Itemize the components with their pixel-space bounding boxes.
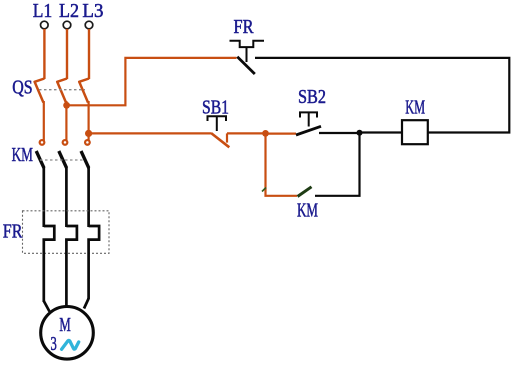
pushbutton SB2 (NO, start) blade: [296, 126, 321, 135]
svg-text:L3: L3: [82, 0, 103, 22]
wire pole3 to SB1: [89, 132, 211, 134]
wire control feed: pole2 to FR contact: [67, 58, 237, 105]
wire into motor right: [84, 299, 89, 309]
switch QS pole 3: [79, 79, 89, 103]
svg-text:KM: KM: [297, 200, 318, 222]
KM main contact blade pole 1: [36, 151, 44, 168]
wire node A to coil: [360, 131, 403, 133]
svg-text:FR: FR: [234, 16, 255, 38]
label ~ (phase tilde): [62, 340, 79, 349]
KM linkage (dashed): [40, 159, 84, 161]
pushbutton SB1 actuator: [208, 116, 227, 131]
wire QS pole2 lower: [65, 101, 67, 141]
switch QS pole 2: [57, 79, 67, 103]
svg-text:L2: L2: [59, 0, 79, 22]
stray green tick (artifact): [262, 188, 266, 192]
junction node A: [357, 130, 363, 136]
pushbutton SB2 actuator: [300, 112, 317, 126]
wire node B to SB2: [266, 133, 297, 135]
wire node B down to aux contact: [266, 133, 298, 195]
contact hook pole 2: [63, 140, 68, 145]
wire aux contact to node A (black): [315, 133, 360, 196]
auxiliary contact KM blade (NO self-hold): [298, 187, 312, 197]
wire SB1 to node B: [227, 132, 266, 134]
junction node on pole 3 (control return): [85, 130, 92, 137]
wire SB2 to node A: [319, 132, 360, 134]
svg-text:M: M: [59, 314, 71, 336]
svg-text:KM: KM: [12, 144, 34, 166]
wire pole1 KM to FR: [42, 167, 45, 227]
QS linkage (dashed): [39, 89, 85, 91]
contact hook pole 1: [40, 140, 45, 145]
svg-text:SB2: SB2: [298, 86, 326, 108]
FR heater element pole 3: [89, 226, 100, 299]
thermal release symbol FR: [230, 41, 265, 47]
SB1 right contact tick: [226, 133, 228, 142]
wire QS pole1 lower: [43, 101, 45, 141]
wire into motor left: [44, 301, 50, 312]
contactor coil KM: [402, 120, 428, 144]
wire pole2 KM to FR: [65, 167, 68, 227]
FR heater element pole 2: [66, 226, 77, 306]
FR heater box (dashed): [23, 211, 110, 254]
terminal L2: [63, 21, 71, 29]
wire L1 drop to QS: [43, 29, 45, 79]
contact hook pole 3: [85, 140, 90, 145]
junction node on pole 2 (control feed): [63, 102, 70, 109]
wire L2 drop to QS: [66, 29, 68, 79]
terminal L1: [41, 21, 49, 29]
motor M circle: [41, 307, 94, 360]
wire QS pole3 lower: [87, 101, 89, 141]
KM main contact blade pole 2: [59, 151, 67, 168]
svg-text:KM: KM: [405, 97, 425, 119]
FR NC contact blade: [237, 57, 255, 74]
wire L3 drop to QS: [88, 29, 90, 79]
FR heater element pole 1: [44, 226, 55, 302]
svg-text:L1: L1: [33, 0, 52, 22]
svg-text:FR: FR: [3, 220, 23, 242]
svg-text:3: 3: [51, 333, 57, 355]
svg-text:QS: QS: [12, 77, 32, 99]
switch QS pole 1: [35, 79, 45, 103]
junction node B: [262, 130, 269, 137]
KM main contact blade pole 3: [81, 151, 89, 168]
pushbutton SB1 (NC, stop) blade: [211, 133, 229, 147]
wire pole3 KM to FR: [87, 167, 90, 227]
FR actuator stem: [246, 47, 248, 62]
wire top rail (FR to right, down to coil): [255, 58, 509, 133]
terminal L3: [85, 21, 93, 29]
